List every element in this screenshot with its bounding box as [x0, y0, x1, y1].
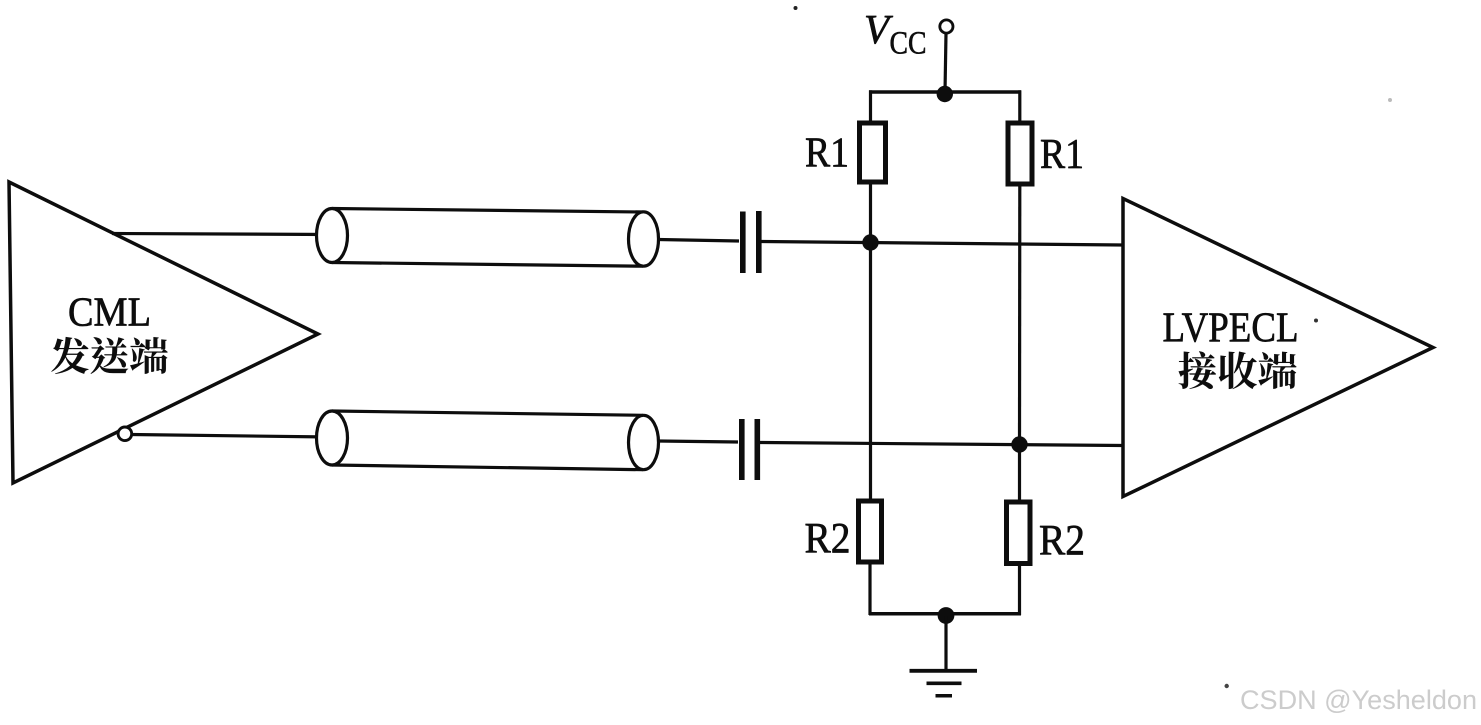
svg-text:LVPECL: LVPECL: [1163, 306, 1299, 352]
wire: CML+ output to transmission line 1: [112, 234, 330, 235]
capacitor C2 (bottom AC coupling cap): [739, 419, 760, 480]
resistor R1 (left) body: [860, 123, 886, 182]
CML driver U1 triangle: [9, 182, 318, 483]
svg-text:CML: CML: [68, 289, 151, 335]
wire: CML- output (from bubble) to transmission line 2: [131, 435, 330, 438]
wire: R1 right across top line to bottom signal node: [1018, 184, 1021, 445]
svg-text:R2: R2: [805, 515, 851, 562]
scan speck: [1314, 319, 1318, 323]
resistor R2 (right) body: [1007, 502, 1031, 564]
junction dot on ground rail: [938, 607, 955, 624]
svg-text:R2: R2: [1039, 518, 1085, 565]
svg-text:R1: R1: [805, 130, 849, 176]
capacitor C1 (top AC coupling cap): [740, 211, 762, 273]
wire: VCC terminal to rail: [945, 34, 946, 93]
wire: C1 to LVPECL+ input (top signal line): [762, 242, 1124, 246]
wire: ground rail to ground symbol: [944, 616, 947, 671]
label 送 (of 发送端): [91, 337, 129, 374]
scan speck: [794, 6, 798, 10]
label 端 (of 接收端): [1258, 352, 1296, 389]
ground rail (horizontal): [869, 612, 1021, 616]
LVPECL receiver U2 triangle: [1123, 199, 1433, 497]
wire: node A down across bottom line to R2 left: [869, 243, 872, 503]
VCC terminal circle: [940, 20, 953, 33]
junction dot: node B (bottom signal / R1-R2 right): [1011, 436, 1027, 452]
ground symbol GND: [910, 671, 978, 696]
wire: node B down to R2 right: [1018, 445, 1021, 503]
junction dot: node A (top signal / R1-R2 left): [862, 234, 878, 250]
transmission line T1 (top coax cylinder): [317, 209, 659, 267]
junction dot on VCC rail: [937, 86, 953, 102]
svg-text:CSDN @Yesheldon: CSDN @Yesheldon: [1240, 685, 1477, 715]
label 发 (of 发送端): [51, 337, 88, 374]
scan speck: [1225, 684, 1229, 688]
inversion bubble on CML- output: [118, 427, 132, 441]
wire: VCC rail down to R1 right: [1018, 90, 1021, 124]
wire: VCC rail down to R1 left: [869, 90, 872, 125]
wire: T2 to capacitor C2: [658, 441, 738, 442]
wire: T1 to capacitor C1: [658, 240, 739, 242]
wire: R2 left to ground rail: [868, 562, 871, 615]
resistor R1 (right) body: [1008, 123, 1032, 184]
resistor R2 (left) body: [859, 501, 882, 562]
wire: R2 right to ground rail: [1018, 564, 1021, 616]
svg-text:CC: CC: [890, 26, 927, 62]
wire: C2 to LVPECL- input (bottom signal line): [760, 443, 1123, 446]
VCC rail (horizontal): [869, 90, 1021, 94]
svg-text:R1: R1: [1040, 132, 1084, 178]
label 接 (of 接收端): [1179, 351, 1217, 389]
label 端 (of 发送端): [130, 337, 168, 374]
transmission line T2 (bottom coax cylinder): [317, 411, 659, 470]
wire: R1 left to top signal node: [869, 182, 872, 242]
scan speck (faint): [1388, 98, 1392, 102]
label 收 (of 接收端): [1219, 352, 1257, 390]
